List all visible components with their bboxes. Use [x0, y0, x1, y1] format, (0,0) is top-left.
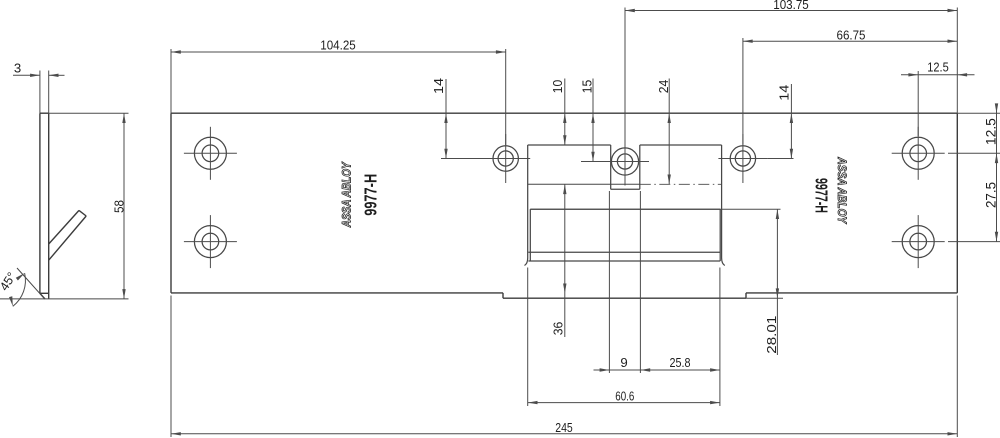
latch cavity rectangle — [530, 209, 720, 261]
dim 27.5: extension line — [948, 241, 1000, 243]
dim 66.75: label — [837, 27, 866, 42]
dim 3: extension lines — [40, 71, 49, 114]
dim 14 left: extension line — [441, 158, 497, 160]
dim 245: extension lines — [171, 296, 957, 438]
svg-text:28.01: 28.01 — [764, 316, 779, 354]
dim 245: label — [555, 420, 573, 435]
dim 15: dimension line — [591, 79, 594, 162]
dim 103.75: extension line center hole — [624, 8, 626, 147]
hole bottom-left — [184, 215, 237, 268]
svg-text:ASSA ABLOY: ASSA ABLOY — [835, 156, 849, 224]
dim 25.8: dimension line — [640, 368, 720, 371]
dim 66.75: dimension line — [743, 40, 957, 43]
latch centerline dash-dot — [640, 183, 722, 185]
hole bottom-right — [892, 215, 945, 268]
dim 15: extension line — [581, 161, 611, 163]
dim 10: dimension line — [563, 79, 566, 146]
svg-text:60.6: 60.6 — [615, 388, 634, 403]
keeper top edge — [528, 144, 722, 146]
side view: plate right edge — [48, 113, 50, 299]
dim 60.6: label — [615, 388, 634, 403]
svg-text:12.5: 12.5 — [927, 60, 949, 75]
dim 36: dimension line — [563, 184, 566, 337]
front plate bottom lip — [503, 293, 746, 298]
dim 9: extension lines — [609, 191, 640, 373]
side view: bottom bevel — [40, 293, 45, 299]
dim 10: label — [550, 80, 565, 94]
dim 3: label — [14, 61, 21, 76]
dim 36: label — [551, 322, 566, 336]
svg-text:24: 24 — [656, 80, 671, 94]
dim 104.25: label — [320, 38, 356, 53]
svg-text:27.5: 27.5 — [983, 182, 999, 208]
dim 3: dimension line — [13, 74, 65, 77]
dim 58: dimension line — [122, 113, 125, 299]
svg-text:36: 36 — [551, 322, 566, 336]
dim 24: label — [656, 80, 671, 94]
svg-text:10: 10 — [550, 80, 565, 94]
svg-text:245: 245 — [555, 420, 573, 435]
left label 9977-H — [360, 174, 380, 216]
hole top-left — [184, 127, 237, 180]
dim 28.01: extension line top — [530, 208, 780, 210]
svg-text:12.5: 12.5 — [983, 118, 999, 145]
dim 60.6: dimension line — [528, 401, 720, 404]
45deg dimension arc — [9, 273, 25, 306]
keeper left side — [525, 145, 528, 266]
svg-text:15: 15 — [580, 80, 595, 94]
side view: hook tab — [49, 210, 86, 260]
center hole — [601, 138, 649, 186]
dim 58: label — [111, 200, 126, 213]
dim 12.5 top: dimension line — [901, 73, 975, 76]
dim 12.5 top: extension line — [917, 71, 919, 136]
dim 14 right: label — [776, 85, 791, 101]
dim 9: dimension line — [594, 368, 641, 371]
dim 14 left: dimension line — [444, 79, 447, 159]
dim 12.5 right: extension lines — [948, 113, 1000, 153]
dim 104.25: dimension line — [171, 50, 506, 53]
svg-text:9977-H: 9977-H — [812, 178, 832, 213]
svg-text:14: 14 — [776, 85, 791, 101]
dim 24: dimension line — [668, 79, 671, 185]
dim 66.75: extension line — [742, 38, 744, 145]
side view: plate bottom cap — [40, 292, 49, 294]
dim 15: label — [580, 80, 595, 94]
svg-text:103.75: 103.75 — [773, 0, 809, 12]
svg-text:58: 58 — [111, 200, 126, 213]
side view: plate left edge — [39, 113, 41, 293]
hole mid-right — [718, 134, 767, 183]
svg-text:104.25: 104.25 — [320, 38, 356, 53]
dim 25.8: label — [670, 355, 691, 370]
svg-text:66.75: 66.75 — [837, 27, 866, 42]
svg-text:14: 14 — [431, 78, 446, 94]
svg-text:3: 3 — [14, 61, 21, 76]
dim 60.6: extension lines — [528, 268, 720, 407]
dim 103.75: dimension line — [625, 9, 957, 12]
dim 28.01: label — [764, 316, 779, 354]
dim 12.5 right: dimension line — [995, 103, 998, 163]
dim 9: label — [620, 355, 627, 370]
dim 28.01: extension line bottom — [746, 297, 783, 299]
dim 27.5: dimension line — [995, 153, 998, 241]
svg-text:ASSA ABLOY: ASSA ABLOY — [339, 161, 353, 228]
dim 103.75: label — [773, 0, 809, 12]
dim 12.5 top: label — [927, 60, 949, 75]
dim 104.25: extension lines — [171, 49, 506, 145]
front plate outline — [171, 113, 957, 293]
svg-text:25.8: 25.8 — [670, 355, 691, 370]
center hole bracket — [611, 145, 640, 189]
left label ASSA ABLOY — [339, 161, 353, 228]
hole mid-left — [481, 134, 530, 183]
dim 58: top extension — [49, 112, 129, 114]
dim 14 right: dimension line — [790, 84, 793, 159]
dim 14 right: extension line — [767, 158, 793, 160]
dim 12.5 right: label — [983, 118, 999, 145]
dim 28.01: dimension line — [776, 209, 779, 355]
dim 103.75: extension line right edge — [956, 8, 958, 114]
45deg label — [0, 270, 19, 293]
right label 9977-H — [812, 178, 832, 213]
45deg reference line — [17, 268, 45, 299]
side view: plate top cap — [40, 112, 49, 114]
svg-text:9977-H: 9977-H — [360, 174, 380, 216]
hole top-right — [892, 127, 945, 180]
right label ASSA ABLOY — [835, 156, 849, 224]
svg-text:9: 9 — [620, 355, 627, 370]
dim 245: dimension line — [171, 432, 957, 435]
latch line solid — [528, 183, 640, 185]
keeper right side — [722, 145, 725, 266]
dim 27.5: label — [983, 182, 999, 208]
dim 14 left: label — [431, 78, 446, 94]
latch cavity bottom lines — [528, 252, 720, 261]
side view: ground baseline — [0, 298, 129, 300]
